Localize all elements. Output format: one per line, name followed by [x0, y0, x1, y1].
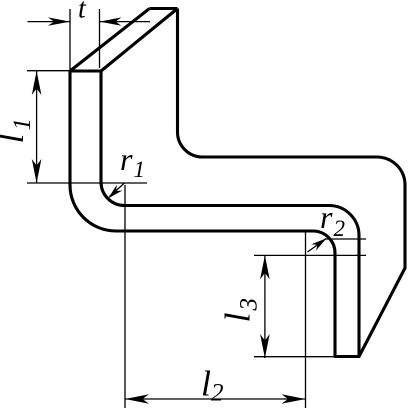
depth edge from front top-left corner [70, 9, 150, 72]
l1 bottom extension line / r1 shelf [27, 182, 147, 184]
l2 right arrow [282, 394, 306, 404]
l3 dimension line [264, 255, 266, 358]
l1 top arrow [32, 71, 42, 95]
t dimension line left tail [28, 21, 71, 23]
back top edge of vertical plate [150, 7, 178, 10]
thick body outlines [70, 9, 405, 357]
r2 leader line [308, 239, 327, 252]
r1 leader line [110, 183, 125, 197]
t dimension line right tail [100, 21, 151, 23]
t right arrow [100, 17, 122, 25]
r1 arrow [108, 185, 122, 199]
l3 bottom arrow [260, 334, 270, 358]
svg-text:t: t [78, 0, 87, 25]
t extension line right [99, 9, 101, 68]
l2 left extension line [124, 185, 126, 408]
l1 bottom arrow [32, 159, 42, 183]
l2 dimension line [125, 398, 306, 400]
l1 dimension line [36, 71, 38, 183]
l3 top extension line [254, 254, 366, 256]
thin dimension/extension lines [27, 9, 366, 408]
l1 top extension line [27, 70, 69, 72]
t extension line left [69, 9, 71, 69]
front profile outline [70, 71, 359, 357]
r2 arrow [311, 238, 326, 251]
back right face, back bend r1, back top edge, back bend r2, back outer face, bottom cut edge [178, 9, 406, 357]
r2 shelf line [325, 238, 367, 240]
l3 bottom extension line [254, 356, 337, 358]
t left arrow [48, 17, 70, 25]
l2 left arrow [125, 394, 149, 404]
l2 right extension line [305, 230, 307, 408]
depth edge from front top-right corner [101, 9, 178, 72]
l3 top arrow [260, 255, 270, 279]
arrowheads [32, 17, 327, 403]
